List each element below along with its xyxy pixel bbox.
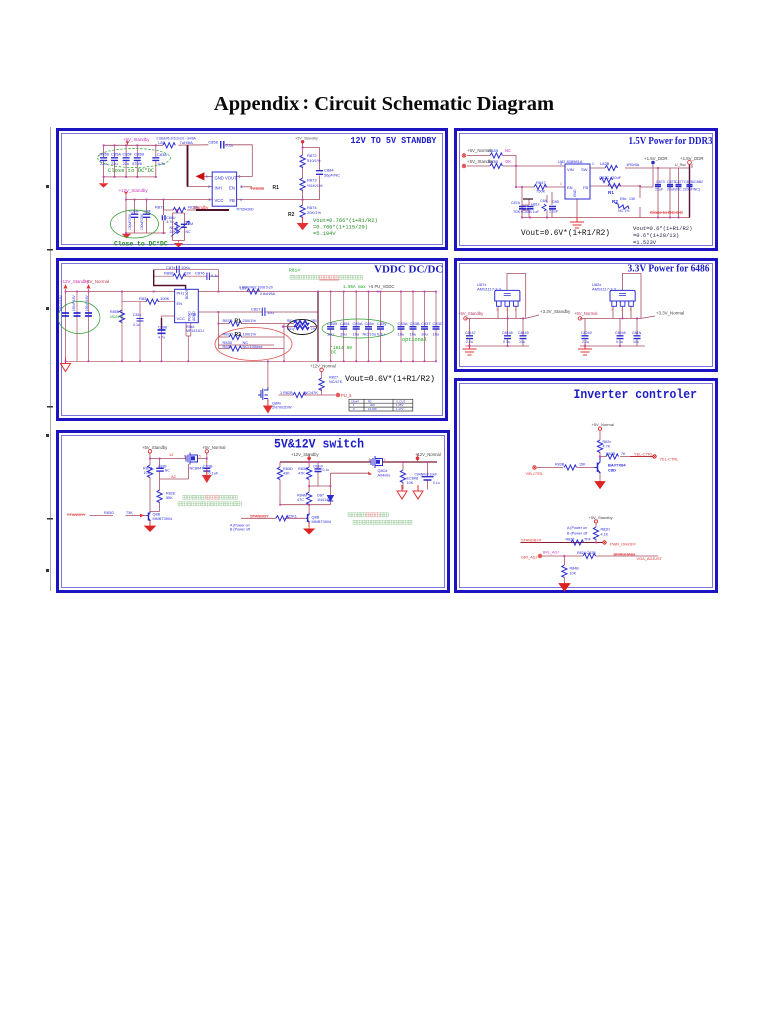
svg-text:1.5V Power for DDR3: 1.5V Power for DDR3 [629,136,713,147]
svg-text:GND VOUT: GND VOUT [215,175,238,180]
svg-text:10u: 10u [633,340,639,344]
svg-text:+5V_Normal: +5V_Normal [574,311,597,316]
svg-text:FB: FB [230,198,236,203]
svg-text:C837: C837 [421,321,431,326]
svg-text:10u: 10u [398,332,405,337]
svg-text:C8A: C8A [540,199,548,203]
svg-text:C8D: C8D [608,468,616,473]
svg-text:B (Power off: B (Power off [230,528,250,532]
svg-text:Inverter controler: Inverter controler [574,388,698,402]
svg-text:10K: 10K [570,572,577,576]
svg-text:22uF(NC 220uF/NC): 22uF(NC 220uF/NC) [667,188,700,192]
svg-text:4: 4 [240,198,242,202]
svg-text:150uF/16V: 150uF/16V [59,295,63,311]
svg-text:R8x: R8x [620,197,627,201]
svg-text:47C: 47C [297,498,304,502]
svg-text:C85B: C85B [327,321,337,326]
svg-text:0.1u: 0.1u [377,332,385,337]
svg-text:C85A: C85A [111,152,121,157]
svg-text:BKL_ADJ: BKL_ADJ [543,551,559,555]
svg-text:OK: OK [505,159,511,164]
svg-text:+5V_Standby: +5V_Standby [123,137,150,142]
svg-text:TF#: TF# [584,538,592,542]
svg-text:10u: 10u [340,332,347,337]
svg-text:Close to DC*DC: Close to DC*DC [108,167,155,174]
svg-text:22uF: 22uF [655,188,664,192]
svg-text:Standby: Standby [193,205,209,210]
svg-text:STANDBY#: STANDBY# [521,538,542,543]
svg-text:C83A: C83A [398,321,408,326]
svg-text:22K: 22K [170,230,177,234]
svg-text:Q8B: Q8B [153,513,161,517]
svg-text:6: 6 [184,455,186,459]
svg-text:GRI_ADJ: GRI_ADJ [521,555,537,560]
svg-text:C83x0: C83x0 [313,465,323,469]
svg-text:22u: 22u [123,161,130,166]
svg-text:0.1u: 0.1u [503,340,510,344]
svg-text:R83x: R83x [139,296,148,301]
svg-text:73K: 73K [126,511,133,515]
svg-text:R83G: R83G [104,511,114,515]
svg-text:7uH/6A: 7uH/6A [180,140,194,145]
svg-text:0: 0 [353,407,355,411]
svg-text:+5V_Standby: +5V_Standby [142,445,168,450]
svg-text:R83Q: R83Q [298,467,308,471]
svg-text:R87B: R87B [223,318,233,323]
svg-text:EN: EN [567,185,573,190]
svg-text:56pF/NC: 56pF/NC [324,173,340,178]
svg-text:10u: 10u [433,332,440,337]
svg-text:C85y: C85y [377,321,386,326]
svg-text:BOOT: BOOT [185,289,189,299]
svg-text:EN: EN [229,186,235,191]
svg-text:C858: C858 [208,140,218,145]
svg-text:EC8#8: EC8#8 [407,477,419,481]
svg-text:R1: R1 [608,190,614,195]
svg-text:PGND: PGND [188,311,192,321]
svg-text:+5V_Normal: +5V_Normal [592,422,614,427]
svg-text:55K: 55K [166,496,173,500]
svg-text:2.2u: 2.2u [466,340,473,344]
svg-text:R87A: R87A [143,467,153,471]
svg-text:VDDC DC/DC: VDDC DC/DC [374,264,443,276]
svg-text:=1.523V: =1.523V [633,239,657,246]
svg-text:1: 1 [384,458,386,462]
svg-text:4.7u: 4.7u [167,220,174,224]
svg-text:10Ku: 10Ku [181,265,190,270]
svg-text:VCC: VCC [215,198,224,203]
svg-text:R82A: R82A [577,551,587,555]
svg-text:L85: L85 [158,140,165,145]
svg-text:+1.5V_DDR: +1.5V_DDR [644,156,668,161]
svg-text:+5V_Standby: +5V_Standby [589,515,613,520]
svg-text:NC: NC [186,230,192,234]
svg-text:C83B: C83B [410,321,420,326]
svg-text:C81N: C81N [632,331,642,335]
svg-text:Q8C#: Q8C# [378,469,389,473]
svg-text:2R0: 2R0 [311,319,317,323]
svg-text:+5V_Standby: +5V_Standby [467,159,494,164]
svg-text:R82B: R82B [606,452,616,456]
svg-text:U_Rsc: U_Rsc [675,163,686,167]
svg-text:DC: DC [331,350,337,356]
svg-text:+3.3V_Standby: +3.3V_Standby [540,309,571,314]
svg-text:0.1u: 0.1u [323,468,330,472]
svg-text:STANDBY: STANDBY [67,512,86,517]
svg-text:4: 4 [369,458,371,462]
svg-text:12: 12 [169,452,174,457]
svg-text:R814: R814 [289,268,300,274]
svg-text:100K: 100K [160,296,170,301]
svg-text:3.3V Power for 6486: 3.3V Power for 6486 [628,264,710,275]
svg-text:C87B/C8B2: C87B/C8B2 [684,180,703,184]
svg-text:200/1%: 200/1% [243,318,257,323]
svg-text:TVSCB: TVSCB [250,186,264,191]
svg-text:0.1u: 0.1u [226,143,234,148]
svg-text:L82B: L82B [600,161,610,166]
svg-text:R81y: R81y [287,327,295,331]
svg-text:C84N#x# 10uF: C84N#x# 10uF [415,473,438,477]
svg-text:optional: optional [402,337,427,343]
svg-text:R1: R1 [235,319,242,325]
svg-text:10u: 10u [267,310,274,315]
svg-text:AMS1117-3.3: AMS1117-3.3 [592,287,617,292]
svg-text:C83C: C83C [433,321,443,326]
svg-text:R2: R2 [612,199,618,204]
svg-text:R82#: R82# [566,538,576,542]
svg-text:22K1: 22K1 [288,514,297,518]
svg-text:YEL-CTRL: YEL-CTRL [660,457,680,462]
svg-text:100uF/25V: 100uF/25V [128,213,132,230]
svg-text:NC: NC [505,148,511,153]
svg-text:C827: C827 [251,307,261,312]
svg-text:4: 4 [560,162,562,166]
svg-text:1.05A max: 1.05A max [343,286,366,290]
svg-text:2N7002DW: 2N7002DW [272,406,292,410]
svg-text:13.32K: 13.32K [368,407,377,411]
svg-text:C89B: C89B [158,326,168,330]
svg-text:7K: 7K [621,452,626,456]
svg-text:0.1uF: 0.1uF [209,472,219,476]
svg-text:C87x: C87x [166,265,175,270]
svg-text:20K/1%: 20K/1% [307,210,321,215]
svg-text:C85B: C85B [134,152,144,157]
svg-text:2: 2 [208,185,210,189]
svg-text:C8148: C8148 [502,331,513,335]
svg-text:R847: R847 [536,180,546,185]
svg-text:EN: EN [177,301,183,306]
svg-text:150uF/16V: 150uF/16V [85,295,89,311]
svg-text:VGA_ADJUST: VGA_ADJUST [637,556,663,561]
svg-text:NC 1%: NC 1% [618,209,630,213]
svg-text:R83D: R83D [283,467,293,471]
svg-text:TPS5430D: TPS5430D [236,208,254,212]
svg-text:AGND: AGND [192,311,196,321]
svg-text:AMS1117-3.3: AMS1117-3.3 [477,287,502,292]
svg-text:+3.3V_Normal: +3.3V_Normal [656,311,684,316]
svg-text:47K: 47K [298,472,305,476]
svg-text:15K: 15K [579,463,586,467]
svg-text:C8249: C8249 [581,331,592,335]
svg-text:10u: 10u [353,332,360,337]
svg-text:NC/100#x#: NC/100#x# [243,344,264,349]
svg-text:NC/10u: NC/10u [363,332,377,337]
svg-text:R87x: R87x [155,205,164,210]
svg-text:+12V_Normal: +12V_Normal [310,364,336,369]
svg-text:MP1431DJ: MP1431DJ [186,329,204,333]
svg-text:YEL-CTRL: YEL-CTRL [634,452,654,457]
svg-text:R81x: R81x [287,319,295,323]
svg-text:C83B: C83B [203,464,213,468]
svg-text:1R0/6A: 1R0/6A [626,162,640,167]
svg-text:R1: R1 [273,185,280,191]
svg-text:22u: 22u [111,161,118,166]
svg-text:A04x0x: A04x0x [378,474,391,478]
svg-text:22K: 22K [184,271,191,276]
svg-text:NC: NC [165,469,170,473]
svg-text:750K: 750K [536,189,546,194]
svg-text:R84M: R84M [297,494,307,498]
svg-text:C82C: C82C [599,175,609,180]
svg-text:R87x: R87x [223,344,232,349]
svg-text:NC/47K: NC/47K [329,380,343,384]
svg-text:5V&12V switch: 5V&12V switch [274,437,364,452]
svg-text:5: 5 [241,185,243,189]
svg-text:12V TO 5V STANDBY: 12V TO 5V STANDBY [351,135,437,146]
svg-text:=5.104V: =5.104V [313,231,336,237]
svg-text:PU_5: PU_5 [341,393,352,398]
svg-text:A (Power on: A (Power on [567,526,587,530]
svg-text:C81x: C81x [133,313,142,317]
svg-text:TDK+C#XB 1uF: TDK+C#XB 1uF [513,210,540,214]
svg-text:R2: R2 [288,212,295,218]
svg-text:0.1u: 0.1u [133,323,140,327]
svg-text:R85B: R85B [110,310,120,314]
svg-text:13K: 13K [629,197,636,201]
svg-text:C873: C873 [656,180,665,184]
svg-text:0.1u: 0.1u [211,273,219,278]
svg-text:R84B: R84B [570,567,580,571]
svg-text:*51K/1%: *51K/1% [307,183,323,188]
svg-text:+12V_Standby: +12V_Standby [119,188,149,193]
svg-text:D87: D87 [317,494,324,498]
svg-text:C85x: C85x [365,321,374,326]
svg-text:FB: FB [583,185,588,190]
svg-text:C854: C854 [340,321,350,326]
svg-text:+5V_Standby: +5V_Standby [458,311,484,316]
svg-text:C85F: C85F [123,152,133,157]
svg-text:2.2u: 2.2u [582,340,589,344]
svg-text:Vout=0.6*(1+R1/R2): Vout=0.6*(1+R1/R2) [633,225,692,232]
svg-text:+5 PU_VDDC: +5 PU_VDDC [369,284,395,289]
svg-text:VIN: VIN [567,167,574,172]
svg-text:10K: 10K [144,471,151,475]
svg-text:PH1: PH1 [177,291,186,296]
svg-text:150uF/16V: 150uF/16V [72,295,76,311]
svg-text:MMBT3904: MMBT3904 [312,520,332,524]
svg-text:100uF/25V: 100uF/25V [140,213,144,230]
svg-text:+12V_Standby: +12V_Standby [291,452,319,457]
svg-text:MMBT3904: MMBT3904 [153,517,173,521]
svg-text:2.2uF: 2.2uF [549,210,559,214]
svg-text:+12V_Normal: +12V_Normal [415,452,441,457]
svg-text:+5V_Standby: +5V_Standby [295,137,318,141]
svg-text:VCC: VCC [177,316,186,321]
svg-text:10u: 10u [519,340,525,344]
svg-text:Vout=0.6V*(1+R1/R2): Vout=0.6V*(1+R1/R2) [345,374,435,384]
svg-text:+1.5V_DDR: +1.5V_DDR [680,156,704,161]
svg-text:10K: 10K [407,481,414,485]
svg-text:R873: R873 [307,178,317,183]
svg-text:C8248: C8248 [615,331,626,335]
svg-text:STANDBY: STANDBY [250,513,269,518]
svg-text:SW: SW [581,167,588,172]
svg-text:A2: A2 [171,474,177,479]
svg-text:C8147: C8147 [465,331,476,335]
svg-text:1.17V: 1.17V [396,407,403,411]
svg-text:=0.6*(1+20/13): =0.6*(1+20/13) [633,232,679,239]
svg-text:R87Q: R87Q [223,332,233,337]
svg-text:1%: 1% [311,327,316,331]
svg-text:B (Power off: B (Power off [567,532,588,536]
svg-text:470/6: 470/6 [132,161,143,166]
svg-text:BRI#GHADJ: BRI#GHADJ [614,552,636,557]
svg-text:+5V_Normal: +5V_Normal [85,279,110,284]
svg-text:4.7u: 4.7u [158,336,165,340]
svg-text:PWR_ON/OFF: PWR_ON/OFF [610,542,637,547]
svg-text:10u: 10u [410,332,417,337]
svg-text:+5V_Normal: +5V_Normal [202,445,225,450]
svg-text:43K: 43K [283,472,290,476]
svg-text:C8M: C8M [186,222,194,226]
svg-text:+5V_Normal: +5V_Normal [467,148,492,153]
svg-text:R82x: R82x [603,440,612,444]
svg-text:=0.766*(1+115/20): =0.766*(1+115/20) [313,225,368,231]
svg-text:C8D: C8D [552,200,560,204]
svg-text:R2: R2 [235,332,242,338]
svg-text:6: 6 [239,175,241,179]
svg-text:C87A: C87A [511,201,521,205]
svg-text:C8149: C8149 [518,331,529,335]
svg-text:H81x: H81x [531,203,540,207]
svg-text:R83B: R83B [555,463,565,467]
svg-text:510/1%: 510/1% [307,158,321,163]
svg-text:1: 1 [560,182,562,186]
svg-text:Close to DC*DC: Close to DC*DC [114,241,168,248]
svg-text:Vout=0.766*(1+R1/R2): Vout=0.766*(1+R1/R2) [313,218,378,224]
svg-text:Q8B: Q8B [312,516,320,520]
svg-text:1 R82B: 1 R82B [280,391,293,395]
svg-text:L87: L87 [240,286,247,291]
svg-text:VIB-CTRL: VIB-CTRL [526,471,545,476]
svg-text:C85A: C85A [353,321,363,326]
svg-text:1: 1 [592,162,594,166]
svg-text:10u: 10u [327,332,334,337]
svg-text:NC/N*C: NC/N*C [110,315,123,319]
svg-text:100/1%: 100/1% [243,332,257,337]
svg-text:R89E: R89E [164,271,174,276]
svg-text:C877: C877 [675,180,684,184]
svg-text:5: 5 [199,455,201,459]
svg-text:0.8uH/6A: 0.8uH/6A [260,292,276,296]
svg-text:C876: C876 [195,271,205,276]
svg-text:0.1u: 0.1u [433,481,440,485]
svg-text:R82D: R82D [601,528,611,532]
svg-text:1N4148: 1N4148 [317,498,330,502]
svg-text:20uF: 20uF [612,175,622,180]
svg-text:GND: GND [573,189,577,197]
svg-text:INH: INH [215,186,222,191]
svg-text:C82B: C82B [587,551,597,555]
svg-text:1: 1 [206,175,208,179]
svg-text:NC/47K: NC/47K [305,391,319,395]
svg-text:Close to DC-DC: Close to DC-DC [650,210,684,215]
svg-text:4.7K: 4.7K [603,445,611,449]
svg-text:10u: 10u [421,332,428,337]
svg-text:4.1K: 4.1K [601,533,609,537]
svg-text:R82E: R82E [166,492,176,496]
svg-text:Vout=0.6V*(1+R1/R2): Vout=0.6V*(1+R1/R2) [521,228,610,238]
svg-text:0.1u: 0.1u [616,340,623,344]
svg-text:3: 3 [209,198,211,202]
svg-text:R827: R827 [329,376,338,380]
